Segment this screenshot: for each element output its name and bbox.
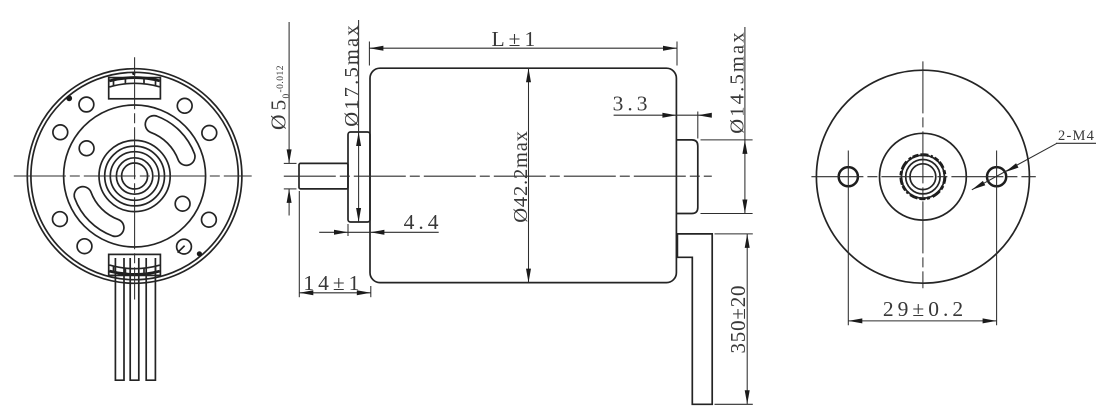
svg-text:4.4: 4.4 [404,210,443,234]
leader 2-M4: second arrow [972,181,986,190]
view1 vertical centerline [134,57,136,299]
dimension Ø17.5max: dim line [358,20,360,222]
bottom tab thin arc [110,265,160,269]
inner hole at 150 deg [79,141,94,156]
dimension 14±1: right arrow [357,290,371,295]
vent hole at 210 deg [53,212,68,227]
svg-text:-0.012: -0.012 [276,65,286,93]
motor rear view: inner rim circle [31,72,238,279]
svg-text:350±20: 350±20 [726,285,750,354]
motor rear view: outer can circle [27,69,242,284]
lead wire 2 [130,258,139,380]
inner hole at 330 deg [175,196,190,211]
shaft circle [910,164,936,190]
dimension Ø17.5max: top arrow [356,132,361,146]
motor rear view: center boss concentric circles [99,140,170,211]
top tab thin arc [110,83,160,87]
tick mark in lower-right vent hole [178,246,185,253]
left hole vertical crosshair + extension [847,151,849,326]
bearing retainer crimped circle [901,155,944,198]
dimension Ø42.2max: bottom arrow [526,269,531,283]
dimension 3.3: right arrow [698,113,712,118]
dimension Ø5: text [267,65,293,130]
dimension 29±0.2: right arrow [983,318,997,323]
view1 horizontal centerline [14,175,252,177]
dimension Ø17.5max: bottom arrow [356,208,361,222]
dimension 350±20: dim line [746,234,748,404]
dimension 29±0.2: left arrow [848,318,862,323]
bottom tab band dividers [114,266,156,274]
lead ribbon exiting rear [677,234,712,404]
lead wire 1 [115,258,124,380]
vent hole at 234.5 deg [77,239,92,254]
svg-text:3.3: 3.3 [613,91,652,115]
top brush tab rectangle [109,78,161,99]
rear end cap [676,140,697,214]
leader 2-M4: line [972,143,1057,190]
dimension 350±20: top arrow [745,234,750,248]
svg-text:0: 0 [282,93,292,98]
tiny dot on top tab arc [132,72,135,75]
svg-text:Ø17.5max: Ø17.5max [341,23,363,127]
leader 2-M4: arrow at hole [1005,163,1019,172]
dimension L±1: dim line [369,47,677,49]
svg-text:Ø14.5max: Ø14.5max [727,30,749,134]
motor front view: outer circle [816,70,1029,283]
vent hole at 124 deg [79,97,94,112]
svg-text:Ø42.2max: Ø42.2max [510,130,532,222]
dimension Ø42.2max: dim line [528,68,530,282]
bottom tab thick arc band [110,271,160,274]
dimension 3.3: left arrow [662,113,676,118]
dimension Ø14.5max: dim line [744,27,746,214]
vent hole at 54.5 deg [177,98,192,113]
dimension Ø42.2max: top arrow [526,68,531,82]
weld dot lower-right [197,251,202,256]
svg-text:14±1: 14±1 [303,271,363,295]
dimension Ø5: upper arrow [287,149,292,163]
view2 axis centerline [284,175,712,177]
svg-text:L±1: L±1 [492,27,540,51]
vent hole at 30 deg [202,125,217,140]
dimension 3.3: extension line [697,112,699,139]
dimension 29±0.2: dim line [848,320,996,322]
dimension 14±1: dim line [299,292,371,294]
leader 2-M4: underline [1056,142,1096,144]
top tab thick arc band [110,78,160,81]
view3 vertical centerline [922,61,924,288]
dimension Ø5: extension lines [284,163,297,189]
dimension 350±20: extension lines [715,234,753,404]
svg-text:Ø5: Ø5 [267,96,291,130]
dimension Ø14.5max: extension lines [701,140,753,214]
dimension 14±1: left arrow [299,290,313,295]
dimension Ø5: lower arrow [287,189,292,203]
weld dot upper-left [66,95,72,101]
dimension 4.4: left arrow [334,230,348,235]
dimension 4.4: extension line [347,224,349,236]
motor body outline [370,68,676,282]
dimension 4.4: dim line [319,231,439,233]
dimension 350±20: bottom arrow [745,390,750,404]
motor rear view: end-cap face circle [64,105,206,247]
view3 horizontal centerline [811,176,1035,178]
svg-text:2-M4: 2-M4 [1058,128,1095,144]
vent hole at 149.5 deg [53,125,68,140]
dimension Ø14.5max: bottom arrow [742,200,747,214]
bearing circle [906,160,940,194]
vent hole at 305 deg [177,239,192,254]
svg-text:29±0.2: 29±0.2 [883,297,967,321]
dimension 14±1: extension lines [299,191,371,297]
dimension L±1: left arrow [369,46,383,51]
right hole vertical crosshair + extension [996,151,998,326]
top tab band dividers [114,78,156,86]
mounting hole left M4 [839,167,858,186]
dimension 4.4: right arrow [370,230,384,235]
shaft [299,163,348,189]
dimension Ø5 0/-0.012: dim line [288,22,290,216]
lead wire 3 [146,258,155,380]
dimension 3.3: dim line [614,114,711,116]
front flange [348,132,370,222]
bottom brush tab rectangle [109,254,161,275]
motor front view: bearing boss circle [880,133,967,220]
dimension Ø14.5max: top arrow [742,140,747,154]
kidney vent slot lower-left [74,187,124,237]
vent hole at 329.5 deg [202,212,217,227]
dimension L±1: extension lines [369,42,677,66]
kidney vent slot upper-right [145,116,195,166]
mounting hole right M4 [987,167,1006,186]
dimension L±1: right arrow [663,46,677,51]
